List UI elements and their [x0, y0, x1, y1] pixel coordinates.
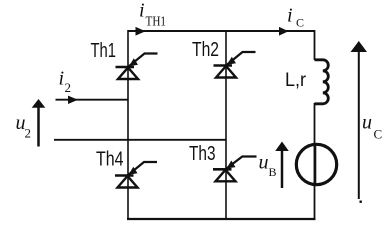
svg-text:i: i	[139, 0, 145, 22]
svg-text:i: i	[59, 68, 65, 90]
wire middle leg	[225, 30, 227, 220]
inductor L,r	[315, 60, 329, 104]
svg-text:L,r: L,r	[285, 70, 307, 91]
svg-text:Th1: Th1	[91, 39, 117, 62]
wire top rail	[128, 30, 315, 32]
svg-text:i: i	[287, 5, 293, 27]
svg-text:Th3: Th3	[189, 142, 216, 165]
current arrow i_TH1	[136, 27, 146, 36]
svg-text:C: C	[296, 16, 304, 30]
label Th1	[91, 39, 117, 62]
svg-text:C: C	[374, 127, 383, 142]
label Th3	[189, 142, 216, 165]
thyristor Th2	[214, 52, 256, 78]
svg-text:Th2: Th2	[192, 38, 219, 61]
label u_B	[259, 152, 277, 180]
current arrow i_2	[68, 96, 78, 104]
current arrow i_C	[279, 27, 289, 36]
wire AC input upper (i2)	[56, 99, 129, 101]
label i_2	[59, 68, 72, 96]
voltage arrow u_2	[32, 99, 46, 147]
label L,r	[285, 70, 307, 91]
label i_TH1	[139, 0, 166, 29]
label u_2	[16, 112, 32, 141]
wire left leg	[127, 30, 129, 220]
source U1 (circle)	[296, 144, 336, 184]
thyristor Th3	[213, 157, 257, 182]
label Th2	[192, 38, 219, 61]
label Th4	[96, 148, 124, 171]
voltage arrow u_C	[351, 41, 368, 203]
svg-text:u: u	[362, 112, 372, 134]
wire right branch	[314, 30, 316, 220]
label u_C	[362, 112, 382, 142]
wire bottom rail	[127, 218, 316, 220]
svg-text:2: 2	[25, 126, 32, 141]
thyristor Th1	[116, 54, 158, 80]
wire AC input lower	[54, 139, 226, 141]
svg-text:TH1: TH1	[146, 14, 167, 29]
label i_C	[287, 5, 304, 30]
thyristor Th4	[115, 162, 157, 188]
svg-text:B: B	[269, 165, 277, 179]
svg-text:Th4: Th4	[96, 148, 124, 171]
svg-text:u: u	[259, 152, 269, 174]
voltage arrow u_B	[275, 142, 289, 189]
svg-text:2: 2	[65, 80, 72, 95]
